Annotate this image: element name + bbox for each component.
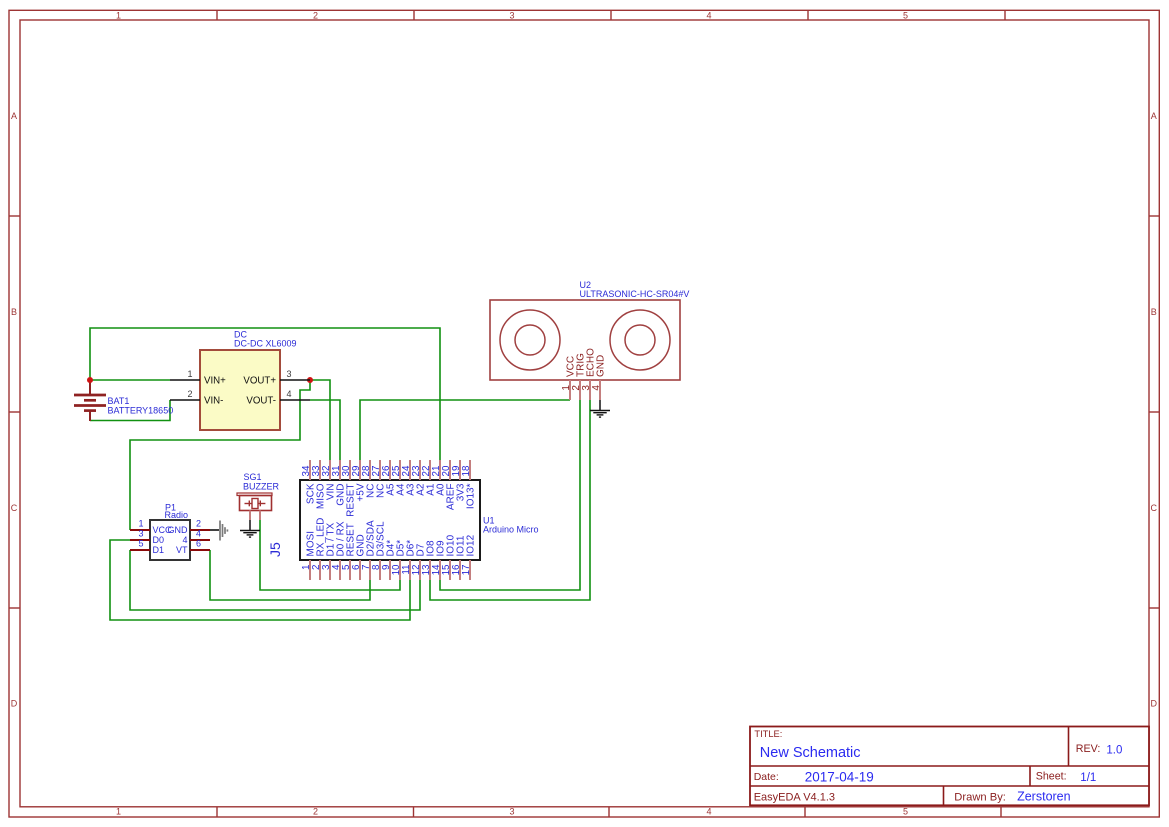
wire ultrasonic TRIG to Arduino IO9 (pin14) <box>440 400 580 590</box>
pin 4 4 <box>190 539 210 541</box>
pin 3 VOUT+ <box>280 379 310 381</box>
svg-text:1: 1 <box>138 519 143 529</box>
svg-text:IO13*: IO13* <box>466 483 477 509</box>
wire radio VT to Arduino D2/SDA (pin7) <box>210 550 370 600</box>
svg-text:D: D <box>1151 698 1158 708</box>
pin 3 D1 / TX (bottom) <box>329 560 331 580</box>
wire Arduino +5V (pin29) to ultrasonic VCC <box>360 400 570 461</box>
wire radio D1 to Arduino D7 (pin12) <box>130 550 420 610</box>
ground at ultrasonic GND pin <box>590 400 610 417</box>
pin 29 +5V (top) <box>359 460 361 480</box>
svg-text:REV:: REV: <box>1076 743 1101 755</box>
svg-text:BATTERY18650: BATTERY18650 <box>108 406 174 416</box>
pin 28 NC (top) <box>369 460 371 480</box>
wire DC VOUT+ to radio VCC <box>130 380 310 530</box>
buzzer pin 1 <box>249 511 251 521</box>
pin 24 A3 (top) <box>409 460 411 480</box>
svg-text:New Schematic: New Schematic <box>760 745 861 761</box>
svg-text:GND: GND <box>596 355 607 377</box>
pin 5 D1 <box>130 549 150 551</box>
pin 1 VCC <box>130 529 150 531</box>
svg-text:17: 17 <box>461 565 472 576</box>
svg-text:3: 3 <box>286 369 291 379</box>
svg-text:2: 2 <box>187 389 192 399</box>
wire battery- to DC VIN- <box>90 400 170 421</box>
pin 14 IO9 (bottom) <box>439 560 441 580</box>
ground (gray, sideways) at radio GND pin <box>220 521 227 541</box>
svg-text:1: 1 <box>116 807 121 817</box>
transducer left circle <box>500 310 560 370</box>
pin 9 D4* (bottom) <box>389 560 391 580</box>
svg-text:2: 2 <box>196 519 201 529</box>
pin 5 RESET (bottom) <box>349 560 351 580</box>
DC-DC converter DC (DC-DC XL6009) <box>170 330 310 431</box>
pin 8 D3/SCL (bottom) <box>379 560 381 580</box>
svg-text:D: D <box>11 698 18 708</box>
junction dot at battery + node <box>87 377 93 383</box>
pin 6 VT <box>190 549 210 551</box>
svg-text:GND: GND <box>168 525 189 535</box>
svg-text:VIN-: VIN- <box>204 395 223 406</box>
pin 2 TRIG <box>579 380 581 400</box>
svg-text:1: 1 <box>116 10 121 20</box>
svg-text:2: 2 <box>313 10 318 20</box>
pin 30 RESET (top) <box>349 460 351 480</box>
svg-text:2: 2 <box>313 807 318 817</box>
svg-text:6: 6 <box>196 539 201 549</box>
pin 3 D0 <box>130 539 150 541</box>
pin 2 RX_LED (bottom) <box>319 560 321 580</box>
svg-text:BAT1: BAT1 <box>108 396 130 406</box>
pin 21 A0 (top) <box>439 460 441 480</box>
wire DC VOUT+ to Arduino VIN (pin32) <box>310 380 330 461</box>
svg-text:C: C <box>1151 503 1158 513</box>
svg-text:VOUT-: VOUT- <box>246 395 276 406</box>
svg-text:D1: D1 <box>153 545 165 555</box>
svg-text:DC-DC XL6009: DC-DC XL6009 <box>234 339 297 349</box>
svg-text:1/1: 1/1 <box>1080 772 1096 784</box>
pin 15 IO10 (bottom) <box>449 560 451 580</box>
svg-text:C: C <box>11 503 18 513</box>
pin 27 NC (top) <box>379 460 381 480</box>
radio module P1 Radio <box>130 503 210 561</box>
svg-text:BUZZER: BUZZER <box>243 481 280 491</box>
svg-text:D0: D0 <box>153 535 165 545</box>
svg-text:4: 4 <box>182 535 187 545</box>
pin 22 A1 (top) <box>429 460 431 480</box>
svg-text:EasyEDA V4.1.3: EasyEDA V4.1.3 <box>754 791 835 803</box>
pin 32 VIN (top) <box>329 460 331 480</box>
svg-text:Arduino Micro: Arduino Micro <box>483 525 539 535</box>
piezo element <box>252 499 258 509</box>
pin 2 VIN- <box>170 399 200 401</box>
wire ultrasonic ECHO to Arduino IO8 (pin13) <box>430 400 590 600</box>
svg-text:3: 3 <box>509 807 514 817</box>
svg-text:A: A <box>11 111 17 121</box>
ultrasonic module U2 ULTRASONIC-HC-SR04#V <box>490 280 689 400</box>
svg-text:4: 4 <box>706 807 711 817</box>
svg-text:J5: J5 <box>267 542 283 557</box>
svg-text:Sheet:: Sheet: <box>1036 771 1067 783</box>
pin 34 SCK (top) <box>309 460 311 480</box>
svg-text:18: 18 <box>461 465 472 476</box>
svg-text:TITLE:: TITLE: <box>754 729 782 739</box>
svg-text:VOUT+: VOUT+ <box>243 375 276 386</box>
pin 20 AREF (top) <box>449 460 451 480</box>
pin 26 A5 (top) <box>389 460 391 480</box>
svg-text:Drawn By:: Drawn By: <box>954 791 1006 803</box>
svg-text:IO12: IO12 <box>466 534 477 556</box>
svg-text:1: 1 <box>187 369 192 379</box>
pin 18 IO13* (top) <box>469 460 471 480</box>
svg-text:3: 3 <box>138 529 143 539</box>
pin 13 IO8 (bottom) <box>429 560 431 580</box>
wire DC VOUT- to Arduino GND (pin31) <box>310 400 340 461</box>
pin 1 VIN+ <box>170 379 200 381</box>
pin 1 MOSI (bottom) <box>309 560 311 580</box>
pin 16 IO11 (bottom) <box>459 560 461 580</box>
pin 4 GND <box>599 380 601 400</box>
pin 6 GND (bottom) <box>359 560 361 580</box>
svg-text:5: 5 <box>903 10 908 20</box>
pin 3 ECHO <box>589 380 591 400</box>
wire radio GND to ground <box>210 529 219 531</box>
svg-text:4: 4 <box>706 10 711 20</box>
wire battery+ to Arduino A0 (pin21) <box>90 328 440 461</box>
pin 4 VOUT- <box>280 399 310 401</box>
svg-text:1.0: 1.0 <box>1106 744 1122 756</box>
svg-text:4: 4 <box>196 529 201 539</box>
pin 12 D7 (bottom) <box>419 560 421 580</box>
ground at buzzer pin 1 <box>240 520 260 537</box>
pin 10 D5* (bottom) <box>399 560 401 580</box>
svg-text:A: A <box>1151 111 1157 121</box>
svg-text:VT: VT <box>176 545 188 555</box>
pin 4 D0 / RX (bottom) <box>339 560 341 580</box>
pin 2 GND <box>190 529 210 531</box>
Arduino Micro U1 (header J5) <box>267 460 539 580</box>
svg-text:2017-04-19: 2017-04-19 <box>805 770 874 785</box>
pin 7 D2/SDA (bottom) <box>369 560 371 580</box>
pin 23 A2 (top) <box>419 460 421 480</box>
svg-text:Radio: Radio <box>165 510 189 520</box>
pin 1 VCC <box>569 380 571 400</box>
battery BAT1 BATTERY18650 <box>74 378 173 421</box>
svg-text:ULTRASONIC-HC-SR04#V: ULTRASONIC-HC-SR04#V <box>580 289 690 299</box>
pin 33 MISO (top) <box>319 460 321 480</box>
pin 11 D6* (bottom) <box>409 560 411 580</box>
buzzer SG1 <box>237 472 280 520</box>
svg-text:5: 5 <box>903 807 908 817</box>
svg-text:4: 4 <box>591 385 602 391</box>
svg-text:4: 4 <box>286 389 291 399</box>
svg-text:B: B <box>1151 307 1157 317</box>
svg-text:Zerstoren: Zerstoren <box>1017 789 1071 803</box>
pin 19 3V3 (top) <box>459 460 461 480</box>
svg-text:3: 3 <box>509 10 514 20</box>
pin 31 GND (top) <box>339 460 341 480</box>
buzzer pin 2 <box>259 511 261 521</box>
transducer right circle <box>610 310 670 370</box>
title block <box>750 727 1149 806</box>
pin 17 IO12 (bottom) <box>469 560 471 580</box>
svg-text:VIN+: VIN+ <box>204 375 226 386</box>
svg-text:Date:: Date: <box>754 771 779 783</box>
pin 25 A4 (top) <box>399 460 401 480</box>
svg-text:B: B <box>11 307 17 317</box>
wire buzzer to Arduino D5* (pin10) <box>260 520 400 590</box>
junction dot at VOUT+ node <box>307 377 313 383</box>
wire radio D0 to Arduino D6* (pin11) <box>110 540 410 620</box>
wire battery+ to DC VIN+ <box>90 379 170 381</box>
svg-text:5: 5 <box>138 539 143 549</box>
